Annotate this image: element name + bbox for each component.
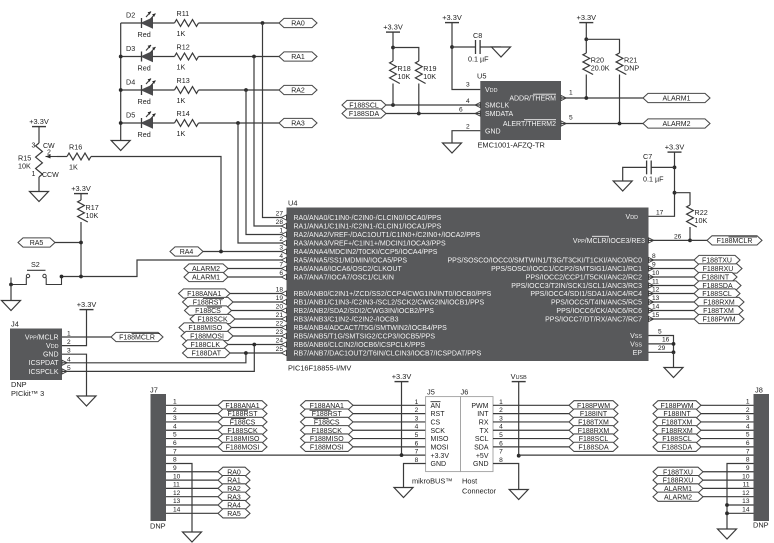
wire [199, 122, 280, 124]
svg-text:VDD: VDD [46, 343, 59, 350]
wire [353, 438, 426, 440]
svg-text:10K: 10K [423, 72, 436, 81]
svg-text:ALARM2: ALARM2 [662, 121, 690, 128]
wire [353, 429, 426, 431]
svg-text:2: 2 [415, 407, 419, 414]
svg-text:R16: R16 [69, 143, 82, 152]
node F188INT J6 [569, 409, 618, 418]
wire [623, 167, 647, 181]
switch S2 [11, 260, 62, 285]
svg-text:ICSPDAT: ICSPDAT [29, 360, 60, 367]
node F188SCL J8 [653, 434, 701, 443]
node F188SCL J6 [569, 434, 618, 443]
ground J6 [509, 490, 528, 500]
ground S2 [2, 301, 21, 311]
svg-text:S2: S2 [31, 260, 40, 269]
node F188INT U4 [694, 272, 737, 281]
wire [353, 404, 426, 406]
svg-text:R14: R14 [177, 109, 190, 118]
svg-text:Red: Red [138, 130, 151, 139]
wire [493, 421, 569, 423]
svg-text:4: 4 [466, 98, 470, 105]
wire [199, 22, 280, 24]
svg-text:Red: Red [138, 97, 151, 106]
svg-text:13: 13 [742, 498, 750, 505]
node RA4 [170, 247, 203, 256]
svg-text:Host: Host [462, 477, 477, 486]
wire [353, 413, 426, 415]
ground U5 [443, 143, 462, 153]
wire [649, 259, 695, 261]
wire [701, 429, 754, 431]
svg-text:C8: C8 [473, 31, 482, 40]
node F188CS J7 [218, 417, 267, 426]
svg-text:SCK: SCK [431, 428, 446, 435]
node F188SDA J6 [569, 442, 618, 451]
wire [701, 413, 754, 415]
svg-text:14: 14 [742, 507, 750, 514]
svg-text:J7: J7 [150, 386, 158, 395]
wire [166, 471, 218, 473]
svg-text:PPS/IOCC3/T2IN/SCK1/SCL1/ANC3/: PPS/IOCC3/T2IN/SCK1/SCL1/ANC3/RC3 [511, 283, 642, 290]
node F188MCLR R22 [688, 239, 692, 243]
svg-text:5: 5 [569, 115, 573, 122]
svg-text:10K: 10K [18, 162, 31, 171]
node F188SDA U5 [342, 109, 386, 118]
node F188MOSI [181, 331, 233, 340]
wire [727, 504, 754, 506]
svg-text:1K: 1K [177, 29, 186, 38]
svg-text:PIC16F18855-I/MV: PIC16F18855-I/MV [288, 364, 351, 373]
svg-text:RB6/ANB6/CLCIN2/IOCB6/ICSPCLK/: RB6/ANB6/CLCIN2/IOCB6/ICSPCLK/PPS [294, 342, 426, 349]
resistor R18 [390, 61, 411, 84]
svg-text:GND: GND [43, 352, 59, 359]
svg-text:+3.3V: +3.3V [29, 117, 49, 126]
wire R17 to RA5 net [80, 222, 82, 277]
resistor R22 [687, 205, 708, 227]
node F188INT J8 [653, 409, 701, 418]
node F188MISO J5 [301, 434, 354, 443]
wire J5 GND [404, 463, 426, 487]
node F188SCK J7 [218, 426, 267, 435]
svg-text:2: 2 [466, 124, 470, 131]
wire [166, 487, 218, 489]
svg-text:D5: D5 [126, 111, 135, 120]
node RA5 [79, 241, 83, 245]
wire [38, 127, 40, 143]
power +3.3V [442, 13, 462, 23]
svg-text:6: 6 [415, 440, 419, 447]
ground J5 [394, 488, 413, 498]
wire [166, 446, 218, 448]
wire [493, 413, 569, 415]
svg-text:VPP/MCLR: VPP/MCLR [25, 334, 59, 341]
node C7 [673, 166, 677, 170]
svg-text:5: 5 [415, 432, 419, 439]
node F188MOSI J7 [218, 442, 267, 451]
wire [228, 344, 287, 346]
wire [166, 421, 218, 423]
wire [649, 276, 695, 278]
svg-text:D3: D3 [126, 44, 135, 53]
wire [703, 479, 754, 481]
svg-text:8: 8 [746, 457, 750, 464]
node RA5 J7 [218, 509, 250, 518]
wire [230, 352, 287, 354]
svg-text:11: 11 [173, 482, 180, 489]
power VUSB [511, 372, 527, 382]
wire [166, 404, 218, 406]
power +3.3V [577, 13, 597, 23]
svg-text:MISO: MISO [431, 436, 449, 443]
svg-text:1K: 1K [177, 96, 186, 105]
svg-text:7: 7 [746, 448, 750, 455]
node F188PWM U4 [694, 314, 744, 323]
resistor R17 [78, 200, 99, 222]
power +3.3V [77, 300, 97, 310]
wire [701, 438, 754, 440]
svg-text:RB1/ANB1/C1IN3-/C2IN3-/SCL2/SC: RB1/ANB1/C1IN3-/C2IN3-/SCL2/SCK2/CWG2IN/… [294, 300, 485, 307]
svg-text:16: 16 [662, 337, 670, 344]
svg-text:10: 10 [742, 473, 750, 480]
svg-text:10K: 10K [695, 216, 708, 225]
svg-text:RB3/ANB3/C1IN2-/C2IN2-/IOCB3: RB3/ANB3/C1IN2-/C2IN2-/IOCB3 [294, 317, 399, 324]
svg-text:MOSI: MOSI [431, 444, 449, 451]
node F188ANA1 J7 [218, 401, 267, 410]
svg-text:2: 2 [173, 407, 177, 414]
svg-text:RA2/ANA2/VREF-/DAC1OUT1/C1IN0+: RA2/ANA2/VREF-/DAC1OUT1/C1IN0+/C2IN0+/IO… [294, 232, 481, 239]
power +3.3V [29, 117, 49, 127]
wire [480, 46, 501, 48]
svg-text:DNP: DNP [753, 521, 769, 530]
svg-text:10K: 10K [86, 211, 99, 220]
svg-text:J4: J4 [11, 320, 19, 329]
svg-text:+3.3V: +3.3V [77, 300, 97, 309]
svg-text:RA2: RA2 [291, 88, 305, 95]
svg-text:F188MOSI: F188MOSI [310, 444, 344, 451]
wire RA2 bus to U4 [246, 90, 287, 235]
svg-text:DNP: DNP [11, 380, 27, 389]
wire [121, 89, 142, 91]
resistor R19 [415, 61, 436, 84]
LED D2 [126, 11, 156, 40]
wire Vss-EP [649, 336, 674, 353]
svg-text:SMCLK: SMCLK [485, 103, 509, 110]
wire [649, 318, 695, 320]
node F188MISO J7 [218, 434, 267, 443]
pin arrows J4 [62, 360, 67, 365]
svg-text:12: 12 [652, 287, 660, 294]
wire [166, 429, 218, 431]
node S2 right [60, 275, 64, 279]
svg-text:RA0/ANA0/C1IN0-/C2IN0-/CLCIN0/: RA0/ANA0/C1IN0-/C2IN0-/CLCIN0/IOCA0/PPS [294, 215, 442, 222]
wire [55, 242, 81, 244]
connector J5 J6 mikroBUS host [412, 388, 497, 496]
svg-text:GND: GND [473, 461, 489, 468]
wire [701, 446, 754, 448]
wire [727, 512, 754, 514]
wire [153, 22, 175, 24]
wire [675, 193, 691, 205]
node F188TXU U4 [694, 255, 740, 264]
svg-text:F188SDA: F188SDA [662, 444, 693, 451]
svg-text:DNP: DNP [624, 64, 639, 73]
node RA5 [18, 238, 55, 247]
potentiometer R15 [18, 143, 59, 180]
node RA0 bus [261, 21, 265, 25]
wire [166, 479, 218, 481]
svg-text:Red: Red [138, 64, 151, 73]
wire [166, 496, 218, 498]
svg-text:C7: C7 [643, 152, 652, 161]
wire [493, 446, 569, 448]
svg-text:CCW: CCW [42, 172, 59, 179]
node ALARM1 J8 [653, 484, 703, 493]
wire J4 Vdd [62, 310, 87, 346]
node RA1 [279, 52, 317, 61]
svg-text:+3.3V: +3.3V [431, 453, 450, 460]
svg-text:ADDR/THERM: ADDR/THERM [509, 96, 556, 103]
svg-text:RA4: RA4 [180, 249, 194, 256]
resistor R13 [175, 76, 199, 105]
connector J7 [150, 386, 166, 531]
svg-text:2: 2 [746, 407, 750, 414]
wire [703, 471, 754, 473]
resistor R21 [616, 53, 639, 74]
node LED rail junction [119, 121, 123, 125]
svg-text:3: 3 [173, 415, 177, 422]
svg-text:26: 26 [674, 234, 682, 241]
wire [38, 177, 40, 192]
node +3.3V J5 [400, 453, 404, 457]
node F188RXU U4 [694, 264, 742, 273]
node R18-R19 [391, 46, 395, 50]
svg-text:13: 13 [173, 498, 181, 505]
svg-text:F188DAT: F188DAT [192, 351, 222, 358]
svg-text:R12: R12 [177, 43, 190, 52]
wire RA3 bus to U4 [238, 123, 287, 243]
node F188RST J7 [218, 409, 267, 418]
svg-text:J5: J5 [427, 388, 435, 397]
ground C7 [613, 181, 632, 191]
node EP [672, 350, 676, 354]
svg-text:4: 4 [415, 424, 419, 431]
svg-text:VDD: VDD [485, 87, 498, 94]
node F188PWM J6 [569, 401, 618, 410]
wire [121, 22, 142, 24]
svg-text:17: 17 [656, 210, 664, 217]
node R22 branch [673, 191, 677, 195]
node RA3 [279, 118, 317, 127]
wire [235, 318, 287, 320]
svg-text:3: 3 [32, 143, 36, 150]
wire [166, 438, 218, 440]
wire J6 GND [493, 463, 519, 489]
svg-text:1K: 1K [177, 129, 186, 138]
node LED rail junction [119, 55, 123, 59]
connector J8 [753, 386, 769, 530]
wire [199, 89, 280, 91]
wire [228, 276, 287, 278]
node LED rail junction [119, 88, 123, 92]
node RA0 [279, 18, 317, 27]
svg-text:AN: AN [431, 403, 441, 410]
node F188MCLR right [707, 236, 762, 245]
svg-text:RA7/ANA7/IOCA7/OSC1/CLKIN: RA7/ANA7/IOCA7/OSC1/CLKIN [294, 275, 394, 282]
wire [232, 310, 287, 312]
capacitor C8 [468, 31, 489, 64]
node F188TXM J6 [569, 417, 618, 426]
wire +3.3V to U5 Vdd [452, 23, 480, 90]
svg-text:GND: GND [431, 461, 447, 468]
svg-text:6: 6 [459, 107, 463, 114]
node F188SDA J8 [653, 442, 701, 451]
wire [232, 327, 287, 329]
node ALARM2 J8 [653, 492, 703, 501]
svg-text:D4: D4 [126, 78, 135, 87]
node RA4 J7 [218, 500, 250, 509]
svg-text:3: 3 [466, 82, 470, 89]
svg-text:RA1: RA1 [291, 54, 305, 61]
node R20-R21 [584, 37, 588, 41]
wire RA1 bus to U4 [254, 57, 287, 227]
svg-text:7: 7 [499, 449, 503, 456]
wire [121, 56, 142, 58]
svg-text:ALARM1: ALARM1 [192, 275, 220, 282]
node F188RST J5 [301, 409, 354, 418]
svg-text:RX: RX [479, 420, 489, 427]
wire [401, 382, 403, 456]
svg-text:EP: EP [633, 350, 643, 357]
node F188CLK-ICSPCLK [252, 343, 256, 347]
wire [649, 310, 695, 312]
wire [649, 268, 695, 270]
wire [392, 32, 394, 61]
svg-text:PPS/IOCC5/T4IN/ANC5/RC5: PPS/IOCC5/T4IN/ANC5/RC5 [551, 300, 642, 307]
ground U4 [664, 368, 683, 378]
svg-text:GND: GND [485, 128, 501, 135]
wire [353, 446, 426, 448]
svg-text:29: 29 [658, 345, 666, 352]
svg-text:7: 7 [173, 448, 177, 455]
svg-text:+5V: +5V [476, 453, 489, 460]
svg-text:RA0: RA0 [291, 21, 305, 28]
svg-text:20.0K: 20.0K [591, 64, 610, 73]
wire [585, 23, 587, 53]
svg-text:RB7/ANB7/DAC1OUT2/T6IN/CLCIN3/: RB7/ANB7/DAC1OUT2/T6IN/CLCIN3/IOCB7/ICSP… [294, 351, 482, 358]
svg-text:INT: INT [477, 411, 489, 418]
svg-text:CS: CS [431, 420, 441, 427]
wire J4 pin1 [62, 336, 111, 338]
ground J4 [77, 396, 96, 406]
svg-text:6: 6 [746, 440, 750, 447]
node RA4 [219, 250, 223, 254]
wire [518, 382, 520, 456]
node ALARM1 U5 [643, 93, 710, 102]
node VUSB J6 [517, 454, 521, 458]
svg-text:PPS/IOCC4/SDI1/SDA1/ANC4/RC4: PPS/IOCC4/SDI1/SDA1/ANC4/RC4 [530, 291, 642, 298]
svg-text:+3.3V: +3.3V [383, 23, 403, 32]
svg-text:0.1 µF: 0.1 µF [468, 55, 489, 64]
ground J8 [718, 529, 737, 539]
ground C8 [492, 47, 511, 57]
LED D3 [126, 44, 156, 73]
svg-text:R11: R11 [177, 9, 190, 18]
resistor R14 [175, 109, 199, 138]
ground J7 [183, 532, 202, 542]
power +3.3V [665, 143, 685, 153]
svg-text:6: 6 [173, 440, 177, 447]
wire [649, 293, 695, 295]
svg-text:+3.3V: +3.3V [577, 13, 597, 22]
wire J4 GND [62, 354, 87, 396]
svg-text:RB5/ANB5/T1G/SMTSIG2/CCP3/IOCB: RB5/ANB5/T1G/SMTSIG2/CCP3/IOCB5/PPS [294, 334, 436, 341]
wire [418, 84, 420, 114]
wire [392, 84, 394, 106]
node C8 [450, 45, 454, 49]
svg-text:U5: U5 [477, 72, 486, 81]
microcontroller U4 PIC16F18855-I/MV [287, 199, 649, 373]
svg-text:+3.3V: +3.3V [442, 13, 462, 22]
svg-text:PPS/SOSCI/IOCC1/CCP2/SMTSIG1/A: PPS/SOSCI/IOCC1/CCP2/SMTSIG1/ANC1/RC1 [491, 266, 642, 273]
wire [386, 113, 480, 115]
node ALARM1 [184, 272, 228, 281]
wire [585, 75, 587, 99]
svg-text:ALARM2: ALARM2 [664, 494, 692, 501]
node ADDR [584, 96, 588, 100]
svg-text:7: 7 [415, 449, 419, 456]
wire J4 ICSPCLK [62, 345, 254, 372]
svg-text:Red: Red [138, 30, 151, 39]
wire [452, 131, 480, 143]
resistor R12 [175, 43, 199, 72]
LED D5 [126, 111, 156, 140]
svg-text:PPS/IOCC7/DT/RX/ANC7/RC7: PPS/IOCC7/DT/RX/ANC7/RC7 [545, 317, 642, 324]
node RA2 [279, 85, 317, 94]
wire [203, 251, 287, 253]
wire [561, 123, 643, 125]
svg-text:J6: J6 [461, 388, 469, 397]
node F188SCL U4 [694, 289, 740, 298]
wire [153, 56, 175, 58]
capacitor C7 [643, 152, 664, 184]
LED D4 [126, 78, 156, 107]
svg-text:F188MCLR: F188MCLR [717, 238, 753, 245]
svg-text:5: 5 [658, 329, 662, 336]
wire [452, 46, 476, 48]
svg-text:RA5: RA5 [30, 240, 44, 247]
node F188MCLR [111, 332, 163, 341]
wire [561, 97, 643, 99]
wire [386, 104, 480, 106]
wire [701, 404, 754, 406]
svg-text:SDA: SDA [474, 444, 489, 451]
svg-text:11: 11 [743, 482, 750, 489]
node ALARM2 U5 [643, 119, 710, 128]
node F188DAT [183, 348, 231, 357]
wire [121, 122, 142, 124]
power +3.3V [383, 23, 403, 33]
svg-text:VPP/MCLR/IOCE3/RE3: VPP/MCLR/IOCE3/RE3 [573, 238, 645, 245]
node RA1 J7 [218, 475, 250, 484]
svg-text:ICSPCLK: ICSPCLK [29, 369, 59, 376]
svg-text:PPS/IOCC2/CCP1/T5CKI/ANC2/RC2: PPS/IOCC2/CCP1/T5CKI/ANC2/RC2 [526, 275, 642, 282]
wire +3.3V rail [166, 454, 426, 456]
svg-text:11: 11 [652, 279, 659, 286]
wire [703, 487, 754, 489]
svg-text:U4: U4 [288, 199, 297, 208]
wire J7 GND [166, 463, 192, 532]
